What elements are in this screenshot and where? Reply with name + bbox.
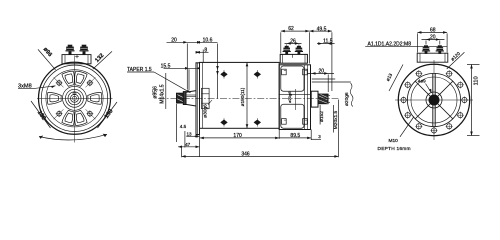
svg-text:20: 20 xyxy=(171,37,177,43)
svg-text:M20x1.5: M20x1.5 xyxy=(333,110,339,129)
svg-text:62: 62 xyxy=(288,26,294,32)
svg-text:DEPTH 16mm: DEPTH 16mm xyxy=(378,146,411,152)
svg-text:M10: M10 xyxy=(389,138,399,144)
svg-text:110: 110 xyxy=(473,76,479,85)
svg-text:TAPER 1.5: TAPER 1.5 xyxy=(127,67,152,73)
svg-text:11.5: 11.5 xyxy=(323,39,333,45)
svg-text:8: 8 xyxy=(204,48,207,54)
svg-text:ø20g6: ø20g6 xyxy=(344,92,350,106)
svg-text:49.5: 49.5 xyxy=(317,26,327,32)
svg-text:20: 20 xyxy=(430,35,436,41)
svg-text:M14x1.5: M14x1.5 xyxy=(160,84,166,103)
svg-text:89.5: 89.5 xyxy=(290,133,300,139)
svg-text:47: 47 xyxy=(185,142,191,147)
svg-text:ø20g6: ø20g6 xyxy=(287,91,292,103)
svg-text:10.6: 10.6 xyxy=(203,37,213,43)
svg-text:26: 26 xyxy=(290,38,296,44)
svg-text:346: 346 xyxy=(241,151,250,157)
svg-text:20: 20 xyxy=(319,69,325,75)
svg-text:170: 170 xyxy=(233,133,242,139)
svg-text:ø95j6: ø95j6 xyxy=(153,86,159,99)
svg-text:3xM8: 3xM8 xyxy=(18,83,32,89)
svg-text:ø152: ø152 xyxy=(319,111,325,122)
svg-text:4ø9: 4ø9 xyxy=(418,79,426,84)
svg-text:15.5: 15.5 xyxy=(161,63,171,69)
svg-text:68: 68 xyxy=(430,27,436,33)
svg-text:A1,1D1.A2.2D2:M8: A1,1D1.A2.2D2:M8 xyxy=(368,41,412,47)
svg-text:ø150(11): ø150(11) xyxy=(240,87,245,106)
svg-text:ø30g6: ø30g6 xyxy=(202,104,208,118)
svg-text:4.5: 4.5 xyxy=(180,124,187,129)
svg-text:13: 13 xyxy=(186,131,192,136)
